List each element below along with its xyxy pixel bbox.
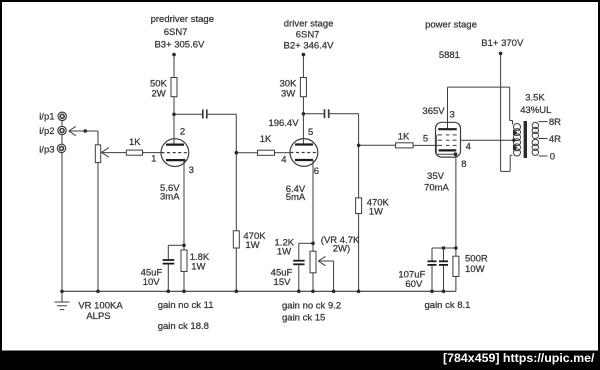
svg-text:5: 5 [423,133,428,144]
svg-text:1K: 1K [129,137,141,148]
svg-text:gain ck 8.1: gain ck 8.1 [425,300,471,311]
svg-text:gain ck 15: gain ck 15 [282,312,325,323]
svg-text:6: 6 [314,166,319,177]
svg-text:gain ck 18.8: gain ck 18.8 [158,321,209,332]
svg-text:3.5K: 3.5K [525,93,545,104]
svg-text:10V: 10V [143,277,161,288]
svg-text:0: 0 [550,152,555,163]
svg-text:5: 5 [308,127,313,138]
svg-text:4: 4 [281,154,286,165]
svg-text:4: 4 [466,142,471,153]
svg-text:[784x459] https://upic.me/: [784x459] https://upic.me/ [443,351,595,365]
svg-text:driver stage: driver stage [284,18,334,29]
svg-text:power stage: power stage [425,19,477,30]
svg-text:1W: 1W [277,247,291,258]
svg-text:gain no ck 11: gain no ck 11 [158,300,214,311]
svg-text:1K: 1K [398,131,410,142]
svg-text:365V: 365V [422,106,445,117]
svg-text:4R: 4R [549,134,561,145]
svg-text:5mA: 5mA [286,192,306,203]
svg-text:60V: 60V [405,279,423,290]
svg-text:1W: 1W [245,240,259,251]
svg-text:8R: 8R [549,117,561,128]
svg-text:6SN7: 6SN7 [164,27,188,38]
svg-text:3mA: 3mA [160,192,180,203]
svg-text:35V: 35V [427,171,445,182]
svg-text:8: 8 [461,159,466,170]
svg-text:B3+ 305.6V: B3+ 305.6V [154,40,205,51]
svg-text:2: 2 [180,127,185,138]
svg-text:43%UL: 43%UL [520,105,551,116]
svg-text:3: 3 [189,165,194,176]
svg-text:2W: 2W [152,88,166,99]
svg-text:B1+ 370V: B1+ 370V [481,38,524,49]
svg-text:B2+ 346.4V: B2+ 346.4V [284,41,335,52]
svg-text:ALPS: ALPS [86,311,110,322]
svg-text:predriver stage: predriver stage [151,14,214,25]
svg-text:70mA: 70mA [424,183,449,194]
svg-text:196.4V: 196.4V [268,118,299,129]
svg-text:6SN7: 6SN7 [296,30,320,41]
svg-text:15V: 15V [274,277,292,288]
svg-text:VR 100KA: VR 100KA [78,300,123,311]
svg-text:5881: 5881 [439,50,460,61]
svg-text:1W: 1W [191,261,205,272]
svg-text:i/p2: i/p2 [39,126,54,137]
svg-text:10W: 10W [465,264,485,275]
svg-text:1K: 1K [260,134,272,145]
svg-text:3: 3 [450,110,455,121]
svg-text:i/p1: i/p1 [39,111,54,122]
svg-text:1: 1 [151,154,156,165]
svg-text:gain no ck 9.2: gain no ck 9.2 [282,300,341,311]
svg-text:1W: 1W [369,206,383,217]
svg-text:i/p3: i/p3 [39,144,54,155]
svg-text:3W: 3W [281,88,295,99]
svg-text:2W): 2W) [333,244,350,255]
